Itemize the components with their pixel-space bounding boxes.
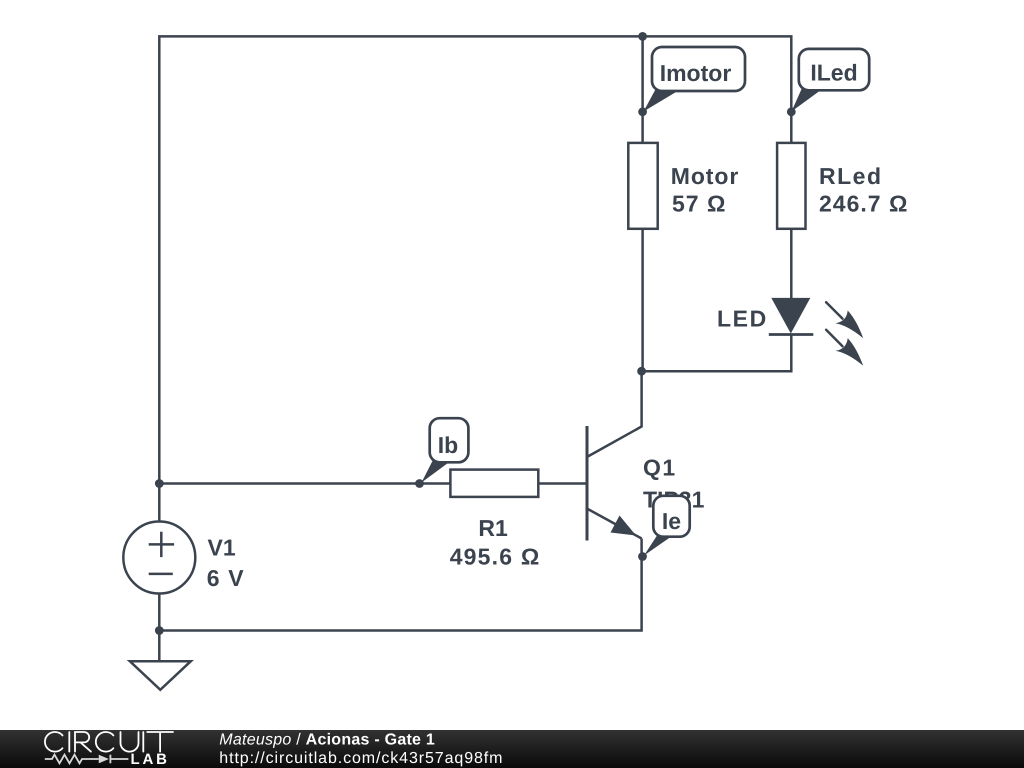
node collector junction: [637, 367, 646, 376]
svg-text:Ib: Ib: [438, 432, 458, 458]
current probe flag Ib: [422, 418, 469, 482]
label RLed value: [819, 163, 908, 217]
wire R1 to base: [538, 482, 586, 485]
svg-text:6 V: 6 V: [207, 565, 245, 591]
LED emission arrow 2: [826, 330, 863, 366]
node top motor tee: [638, 32, 647, 41]
wire V1 to bottom node: [158, 593, 161, 630]
CircuitLab logo wordmark: [45, 732, 173, 752]
node ILed probe: [787, 107, 796, 116]
svg-text:R1: R1: [478, 515, 508, 541]
node junction dots: [155, 32, 796, 635]
LED emission arrow 1: [826, 302, 863, 338]
current probe flag ILed: [792, 49, 870, 112]
wire rail to V1: [158, 484, 161, 522]
current probe flag Imotor: [644, 47, 746, 112]
svg-text:246.7 Ω: 246.7 Ω: [819, 191, 908, 217]
wire base from rail to R1: [159, 482, 450, 485]
wire top rail: [159, 36, 791, 483]
CircuitLab logo resistor-diode glyph: [45, 755, 129, 764]
node Ie probe: [638, 552, 647, 561]
voltage source V1: [123, 522, 195, 594]
ground: [130, 661, 191, 690]
resistor Motor: [628, 143, 657, 229]
svg-text:http://circuitlab.com/ck43r57a: http://circuitlab.com/ck43r57aq98fm: [219, 750, 503, 767]
wire ground stub: [158, 631, 161, 662]
label R1 value: [450, 515, 541, 570]
footer bar: [0, 730, 1024, 768]
wire collector: [588, 371, 642, 456]
node bottom rail tee: [155, 626, 164, 635]
svg-text:ILed: ILed: [810, 59, 857, 85]
wire motor branch bottom: [641, 229, 644, 371]
node Imotor probe: [638, 107, 647, 116]
svg-text:495.6 Ω: 495.6 Ω: [450, 544, 541, 570]
wire RLed to LED: [790, 229, 793, 299]
svg-text:Ie: Ie: [662, 508, 681, 534]
transistor Q1: [587, 426, 642, 541]
svg-text:57 Ω: 57 Ω: [672, 191, 726, 217]
svg-text:RLed: RLed: [819, 163, 883, 189]
svg-text:Q1: Q1: [643, 455, 677, 481]
node base tee on rail: [155, 479, 164, 488]
wire emitter bottom: [159, 539, 641, 631]
wire LED cathode down and left to node: [642, 334, 792, 372]
svg-text:Mateuspo / Acionas - Gate 1: Mateuspo / Acionas - Gate 1: [219, 731, 435, 748]
label V1 value: [207, 535, 245, 592]
current probe flag Ie: [644, 496, 690, 556]
svg-text:LAB: LAB: [131, 751, 170, 768]
LED D1: [769, 298, 863, 366]
svg-text:V1: V1: [208, 535, 236, 561]
node Ib probe: [415, 479, 424, 488]
resistor RLed: [777, 143, 805, 229]
wire motor branch top: [641, 36, 644, 142]
svg-text:Imotor: Imotor: [660, 60, 732, 86]
resistor R1: [450, 470, 538, 497]
label Motor value: [671, 163, 739, 217]
svg-text:Motor: Motor: [671, 163, 739, 189]
svg-text:LED: LED: [717, 306, 768, 332]
